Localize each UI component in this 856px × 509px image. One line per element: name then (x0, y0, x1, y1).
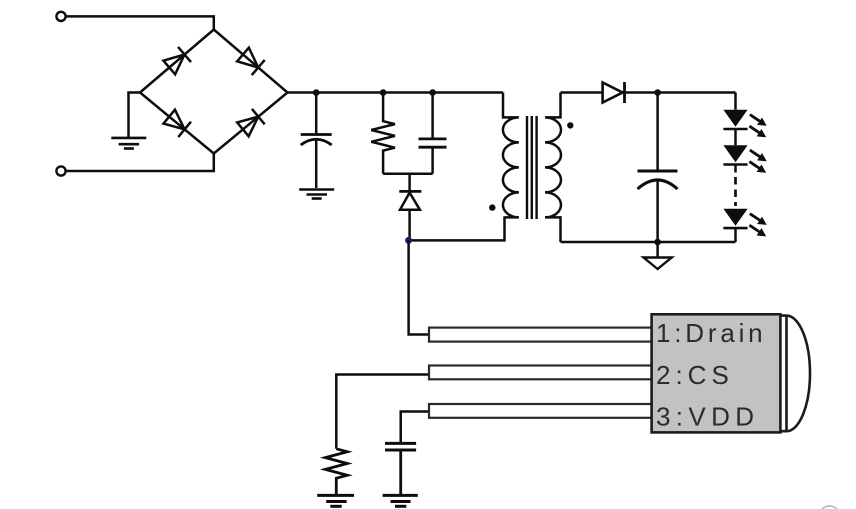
svg-text:2:CS: 2:CS (656, 360, 734, 390)
svg-text:1:Drain: 1:Drain (656, 318, 766, 348)
svg-text:3:VDD: 3:VDD (656, 402, 759, 432)
